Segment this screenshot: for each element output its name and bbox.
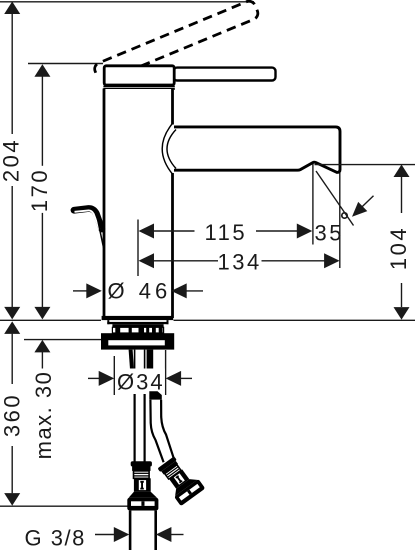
hose connector 2 (angled) (155, 453, 205, 507)
straight hose tube (136, 394, 144, 461)
spout junction outer arc (162, 123, 173, 175)
dimension line 170 (41, 77, 43, 166)
arrow 360 top (4, 321, 20, 334)
angled hose tube (152, 400, 174, 462)
extension line: top of raised lever (0, 1, 254, 3)
spout junction inner arc (167, 130, 176, 169)
extension line diameter34 right (165, 350, 167, 395)
svg-text:170: 170 (27, 168, 52, 212)
extension line: faucet centerline (137, 220, 139, 277)
arrow G38 right (156, 527, 172, 542)
bottom datum line (hose end) (0, 505, 130, 507)
pull rod below washer (129, 350, 135, 372)
dimension line 204 (11, 13, 13, 134)
cartridge cap lines (103, 85, 174, 87)
black gasket band (112, 324, 163, 327)
svg-text:115: 115 (205, 220, 248, 245)
svg-text:G 3/8: G 3/8 (25, 526, 86, 550)
extension line: aerator vertical (115) (312, 164, 314, 245)
white halo for diameter34 text (115, 369, 165, 396)
spout fill (174, 127, 340, 172)
dimension line 134 (152, 260, 219, 262)
dimension line 104 (401, 177, 403, 213)
lever hub (104, 66, 174, 85)
mounting washer (101, 333, 174, 349)
svg-text:104: 104 (386, 226, 411, 270)
leader line 35 degrees (316, 171, 354, 226)
arrow G38 left (114, 527, 130, 542)
arrow 170 top (34, 64, 50, 77)
svg-text:Ø34: Ø34 (117, 370, 165, 395)
ribbed shank tier (112, 327, 163, 333)
body right edge below spout (171, 173, 174, 318)
arrow d34 right (166, 371, 182, 386)
faucet body fill (103, 89, 174, 318)
dimension line 115 (152, 230, 195, 232)
arrow 104 bottom (394, 307, 410, 320)
extension line: spout tip vertical (134) (339, 171, 341, 269)
svg-text:35: 35 (315, 221, 344, 246)
hose elbow (149, 391, 162, 400)
arrow d34 left (99, 371, 115, 386)
drain pull rod (74, 208, 102, 229)
dimension tails diameter 46 (73, 290, 89, 292)
lever arm (174, 68, 276, 81)
arrow d46 left (86, 283, 102, 298)
extension line: spout outlet 104 (315, 164, 415, 166)
body left edge (103, 89, 106, 319)
arrow 134 right (324, 253, 340, 268)
arrow 35deg leader (352, 202, 367, 217)
hose 2 vertical stub (147, 350, 154, 372)
arrow 204 top (4, 2, 20, 15)
svg-text:134: 134 (217, 250, 261, 275)
extension line: top of lever at rest (28, 63, 103, 65)
body right edge above spout (171, 89, 174, 125)
arrow 104 top (394, 165, 410, 178)
arrow max30 (34, 340, 50, 353)
mask extra dash below hub-left (95, 77, 104, 90)
extension line: deck underside (24, 339, 102, 341)
dimension tails G 3/8 (95, 534, 117, 536)
arrow d46 right (171, 283, 187, 298)
collar below deck (108, 320, 167, 324)
arrow 170 bottom (34, 307, 50, 320)
arrow 115 left (139, 224, 155, 239)
body bottom flange (102, 316, 174, 320)
svg-text:Ø 46: Ø 46 (108, 279, 172, 304)
supply tube stubs (134, 350, 136, 371)
extension line: deck surface right (174, 319, 415, 321)
dimension line 360 (11, 334, 13, 384)
extension line diameter34 left (113, 356, 115, 395)
G3/8 threaded pipe (131, 511, 154, 550)
arrow 115 right (297, 224, 313, 239)
arrow 134 left (139, 253, 155, 268)
dimension tails diameter 34 (88, 377, 101, 379)
arrow 204 bottom (4, 307, 20, 320)
spout outline (174, 127, 340, 172)
hose connector 1 (straight) (127, 461, 158, 510)
extension line: deck surface left (0, 319, 101, 321)
svg-text:204: 204 (0, 138, 24, 182)
arrow 360 bottom (4, 493, 20, 506)
svg-text:max. 30: max. 30 (31, 371, 56, 460)
dashed lever (raised position) (93, 0, 260, 83)
svg-text:360: 360 (0, 393, 25, 437)
degree symbol of 35 (342, 213, 347, 218)
dimension line max.30 (41, 352, 43, 369)
